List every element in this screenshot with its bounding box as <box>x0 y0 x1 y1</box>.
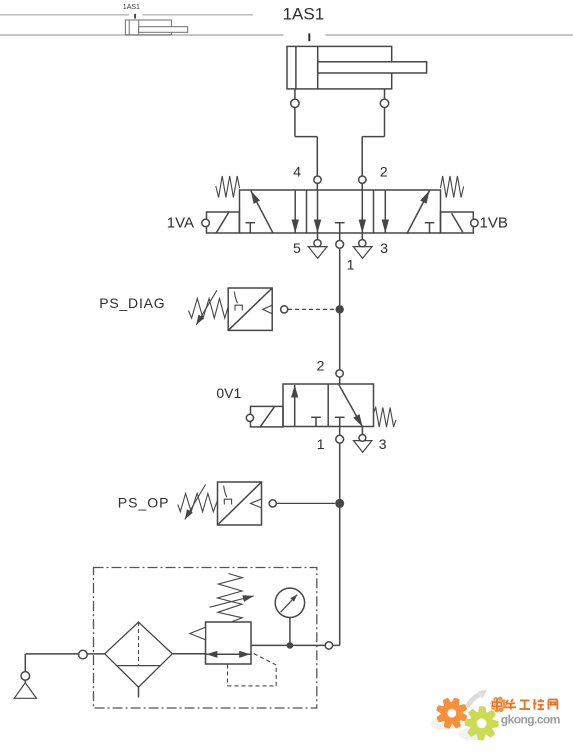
svg-text:1VB: 1VB <box>480 215 508 232</box>
svg-text:2: 2 <box>380 164 388 180</box>
svg-text:5: 5 <box>293 240 301 256</box>
svg-text:1AS1: 1AS1 <box>283 5 325 24</box>
svg-text:0V1: 0V1 <box>216 385 241 401</box>
svg-text:3: 3 <box>380 240 388 256</box>
svg-text:2: 2 <box>317 358 325 374</box>
svg-text:4: 4 <box>293 164 301 180</box>
svg-text:PS_OP: PS_OP <box>118 494 170 510</box>
svg-text:3: 3 <box>379 436 387 452</box>
svg-text:PS_DIAG: PS_DIAG <box>99 295 165 311</box>
svg-text:1: 1 <box>317 436 325 452</box>
svg-text:1AS1: 1AS1 <box>123 4 140 11</box>
svg-text:1VA: 1VA <box>167 215 194 232</box>
svg-text:1: 1 <box>347 256 355 272</box>
svg-text:gkong.com: gkong.com <box>501 713 560 727</box>
